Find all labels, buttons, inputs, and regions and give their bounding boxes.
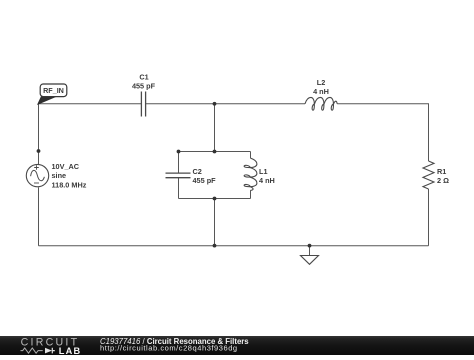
inductor L2 4 nH	[305, 78, 337, 110]
svg-text:4 nH: 4 nH	[313, 87, 329, 96]
junction: tank top / mid branch	[213, 150, 217, 154]
svg-text:C1: C1	[139, 73, 148, 82]
wire L1 bottom lead	[250, 190, 252, 198]
logo resistor glyph	[21, 348, 43, 353]
voltage source V1 10V_AC sine 118.0 MHz	[26, 162, 86, 189]
svg-text:L2: L2	[317, 78, 326, 87]
svg-text:C2: C2	[193, 167, 202, 176]
wire tank bottom rail	[179, 198, 251, 200]
svg-text:sine: sine	[52, 171, 67, 180]
wire top rail: C1 to L2	[146, 103, 305, 105]
junction: bottom rail / mid branch	[213, 244, 217, 248]
wire right vertical: R1 to bottom-right corner	[428, 189, 430, 246]
svg-text:http://circuitlab.com/c28q4h3f: http://circuitlab.com/c28q4h3f936dg	[100, 344, 238, 353]
node flag RF_IN	[38, 84, 67, 104]
junction: bottom rail / ground	[308, 244, 312, 248]
wire mid vertical: tank bottom to bottom rail	[214, 199, 216, 246]
svg-text:455 pF: 455 pF	[193, 176, 217, 185]
wire top rail: RF_IN corner to C1	[39, 103, 142, 105]
svg-text:4 nH: 4 nH	[259, 176, 275, 185]
wire left vertical: V1 bottom to bottom rail	[38, 187, 40, 245]
logo diode glyph	[45, 348, 52, 354]
junction: top rail / mid branch	[213, 102, 217, 106]
wire top rail: L2 to top-right corner and down to R1	[337, 104, 428, 161]
svg-text:RF_IN: RF_IN	[43, 86, 64, 95]
footer bar	[0, 336, 474, 355]
wire mid vertical: top rail to tank top	[214, 104, 216, 152]
wire C2 bottom lead	[178, 178, 180, 199]
svg-text:L1: L1	[259, 167, 268, 176]
wire tank top rail	[179, 151, 251, 153]
resistor R1 2 ohm	[423, 161, 449, 189]
svg-text:LAB: LAB	[59, 346, 81, 355]
ground	[301, 256, 319, 265]
svg-text:R1: R1	[437, 167, 446, 176]
svg-text:118.0 MHz: 118.0 MHz	[52, 180, 87, 189]
wire bottom rail	[39, 245, 429, 247]
junction: tank bottom / mid branch	[213, 197, 217, 201]
inductor L1 4 nH	[244, 158, 275, 190]
svg-text:10V_AC: 10V_AC	[52, 162, 80, 171]
capacitor C2 455 pF	[166, 167, 217, 185]
wire left vertical: RF_IN corner to V1 top	[38, 104, 40, 164]
wire C2 top lead	[178, 152, 180, 173]
wire ground stub	[309, 246, 311, 256]
capacitor C1 455 pF	[132, 73, 156, 117]
junction: tank top-left (C2 terminal)	[177, 150, 181, 154]
junction: V1 top terminal	[37, 149, 41, 153]
svg-text:455 pF: 455 pF	[132, 81, 156, 90]
wire L1 top lead	[250, 152, 252, 159]
svg-text:2 Ω: 2 Ω	[437, 176, 449, 185]
